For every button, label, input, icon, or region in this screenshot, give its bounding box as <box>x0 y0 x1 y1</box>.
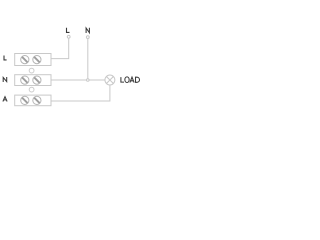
wire A: row A to lamp bottom <box>51 85 110 101</box>
wire N: row N to lamp <box>51 79 105 81</box>
screw terminal row N pin 1 <box>21 76 29 84</box>
label N (supply) <box>86 28 89 33</box>
screw terminal row L pin 2 <box>33 56 41 64</box>
screw terminal row L pin 1 <box>21 56 29 64</box>
label N (terminal block) <box>3 77 6 82</box>
fixing hole between row N and row A <box>29 87 34 92</box>
terminal block row N <box>15 75 51 86</box>
terminal block row L <box>15 54 51 66</box>
screw terminal row N pin 2 <box>33 76 41 84</box>
label L (terminal block) <box>4 56 7 60</box>
supply terminal circle N <box>86 36 89 39</box>
junction node N <box>87 79 90 82</box>
fixing hole between row L and row N <box>29 68 34 73</box>
lamp LOAD symbol <box>105 75 115 85</box>
wire N: supply terminal down to junction <box>87 39 89 81</box>
screw terminal row A pin 1 <box>21 96 29 104</box>
label L (supply) <box>67 28 70 33</box>
supply terminal circle L <box>67 35 70 38</box>
terminal block row A <box>15 95 51 106</box>
label A (terminal block) <box>3 97 7 102</box>
screw terminal row A pin 2 <box>33 96 41 104</box>
wire L: row L to supply terminal <box>51 38 69 58</box>
label LOAD <box>121 77 140 83</box>
